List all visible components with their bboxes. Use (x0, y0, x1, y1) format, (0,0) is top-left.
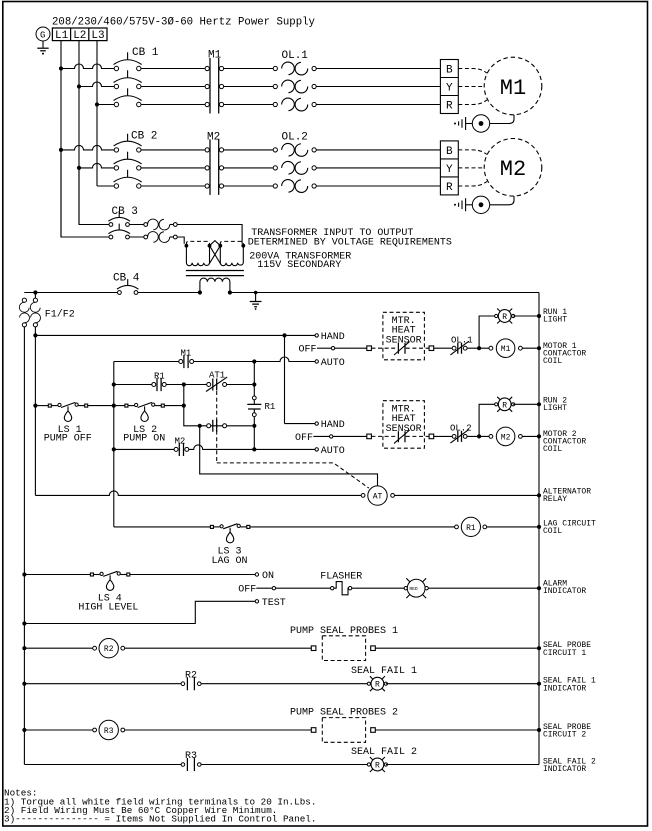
svg-text:M2: M2 (500, 157, 526, 182)
node secondary right (228, 290, 232, 294)
selector alarm ON (255, 573, 258, 576)
fuse transformer primary 1 (144, 219, 177, 230)
transformer core (186, 271, 244, 276)
coil R3 seal probe relay (93, 720, 125, 739)
wire M2 to OL.2 (224, 150, 274, 186)
wire LS1 to LS2 (88, 405, 125, 407)
wire OL.1 to M1 coil (467, 347, 489, 349)
wire OL.2 to terminals (316, 150, 440, 186)
seal probe M2 (454, 196, 514, 213)
svg-text:CB 3: CB 3 (112, 206, 138, 218)
wire OL.1 to terminals (316, 69, 440, 105)
motor M2 (484, 139, 542, 197)
coil R1 lag relay (455, 517, 539, 536)
wire hot branch to HAND 2 (284, 335, 286, 423)
svg-text:R: R (446, 182, 453, 194)
wire auto logic left vertical (113, 362, 115, 527)
wire phase C vertical (96, 41, 98, 186)
wire phase B vertical (78, 41, 80, 225)
svg-text:DETERMINED BY VOLTAGE REQUIREM: DETERMINED BY VOLTAGE REQUIREMENTS (248, 238, 452, 249)
ground symbol under G (37, 41, 48, 55)
box MTR. HEAT SENSOR 1 (383, 312, 425, 360)
motor M1 (484, 57, 542, 115)
svg-text:R2: R2 (104, 645, 114, 654)
svg-text:R1: R1 (466, 524, 476, 533)
wire dashed into sensor box (371, 347, 397, 349)
node HAND 1 feed (33, 333, 37, 337)
svg-text:SENSOR: SENSOR (386, 424, 422, 435)
contact OL.1 NC (450, 335, 472, 355)
wire fuse1 to transformer right primary terminal (177, 225, 242, 244)
svg-text:R1: R1 (154, 372, 165, 382)
svg-text:RED: RED (409, 586, 418, 592)
node secondary left (198, 290, 202, 294)
wire CB3 to primary fuses (129, 225, 143, 238)
wire dashed B to motor M2 (458, 150, 487, 155)
node LS net (182, 404, 186, 408)
node R1 row (112, 382, 116, 386)
wire dashed Y to motor M2 (458, 167, 484, 169)
wire square to OL.2 (434, 435, 453, 437)
svg-text:RELAY: RELAY (543, 495, 567, 504)
node M2 aux row (112, 447, 116, 451)
wire dashed AT1 actuator link (217, 391, 369, 488)
wire TEST feed (24, 601, 255, 623)
right rail (538, 293, 540, 765)
wire to CB2 pole 1 (hops B and C) (61, 145, 114, 150)
svg-text:B: B (446, 146, 453, 158)
wire LS1 feed (35, 405, 48, 407)
wire HAND2 from hot branch (285, 423, 316, 425)
contactor M2 power contacts (205, 132, 224, 195)
node phase B / CB2 (77, 166, 81, 170)
svg-text:INDICATOR: INDICATOR (543, 684, 586, 693)
wire left rail B (from F2) (34, 327, 36, 496)
node TEST feed (22, 621, 26, 625)
terminal square probes 1 (311, 646, 316, 651)
svg-text:LIGHT: LIGHT (543, 316, 567, 325)
coil M2 motor contactor (489, 427, 539, 446)
wire R3 to probe terminal (125, 729, 312, 731)
wire dashed sensor2 to square (406, 435, 429, 437)
terminal square probes 2 out (371, 728, 376, 733)
svg-text:G: G (40, 31, 45, 41)
node seal fail 1 feed (22, 682, 26, 686)
svg-text:115V SECONDARY: 115V SECONDARY (257, 260, 341, 271)
node phase C / CB1 (95, 102, 99, 106)
wire OFF1 to heat sensor (335, 347, 367, 349)
limit switch LS 1 pump off (48, 402, 87, 421)
wire M1 to OL.1 (224, 69, 274, 105)
wire CB2 to M2 contacts (141, 150, 205, 186)
svg-text:FLASHER: FLASHER (320, 572, 362, 583)
node phase A / CB1 (59, 66, 63, 70)
terminal square (367, 434, 372, 439)
svg-text:LIGHT: LIGHT (543, 404, 567, 413)
svg-text:OFF: OFF (295, 433, 313, 444)
node rail alarm (537, 586, 541, 590)
svg-text:AUTO: AUTO (321, 446, 345, 457)
node rail seal probe 2 (537, 728, 541, 732)
wire RED to rail (428, 587, 539, 589)
contact AT1 NC (206, 371, 227, 392)
pilot light RED alarm (404, 578, 428, 598)
svg-text:L3: L3 (91, 30, 104, 42)
node alarm feed (22, 572, 26, 576)
node rail coil1 (537, 346, 541, 350)
selector alarm TEST (255, 600, 258, 603)
wire probes2 to rail (375, 729, 539, 731)
fuse F2 (30, 290, 40, 327)
node hot branch down (282, 333, 286, 337)
svg-text:Y: Y (446, 164, 453, 176)
svg-text:CB 4: CB 4 (113, 273, 140, 285)
wire to CB2 pole 3 (97, 185, 114, 187)
svg-text:SENSOR: SENSOR (386, 335, 422, 346)
svg-text:INDICATOR: INDICATOR (543, 587, 586, 596)
wire probes1 to rail (375, 647, 539, 649)
wire flasher to RED light (352, 587, 404, 589)
svg-text:CIRCUIT 1: CIRCUIT 1 (543, 649, 586, 658)
node run light 1 branch (477, 346, 481, 350)
flasher (320, 572, 362, 595)
terminal square probes 1 out (371, 646, 376, 651)
wire R3 feed (24, 729, 92, 731)
wire seal fail 1 rung (24, 683, 367, 685)
svg-text:L1: L1 (55, 30, 69, 42)
wire OL.2 to M2 coil (467, 435, 489, 437)
contact thermal sensor 2 (394, 430, 410, 443)
svg-text:HAND: HAND (321, 420, 345, 431)
wire R2 feed (24, 647, 92, 649)
ground secondary (250, 291, 262, 310)
svg-text:SEAL FAIL 1: SEAL FAIL 1 (351, 666, 417, 677)
transformer T1 dual-voltage primary (185, 241, 246, 266)
node phase A / CB2 (59, 148, 63, 152)
selector HOA 2 terminals (295, 420, 345, 457)
contact R2 NO (181, 670, 201, 690)
coil R2 seal probe relay (93, 639, 125, 658)
terminal square (429, 346, 434, 351)
pilot light R seal fail 2 (351, 747, 417, 772)
wire rung AT relay (hops auto vertical) (35, 491, 361, 496)
svg-text:3)--------------- = Items Not: 3)--------------- = Items Not Supplied I… (4, 813, 316, 824)
svg-text:AT: AT (373, 493, 383, 502)
terminal block B/Y/R motor 1 (440, 60, 458, 114)
svg-text:AUTO: AUTO (321, 358, 345, 369)
terminal square (367, 346, 372, 351)
coil AT alternator relay (361, 486, 539, 505)
node rail seal fail 1 (537, 682, 541, 686)
wire seal fail 2 rung (24, 764, 367, 766)
terminal block L1 L2 L3 (52, 28, 107, 42)
seal probe M1 (454, 115, 514, 132)
wire dashed sensor to square (406, 347, 429, 349)
svg-text:PUMP SEAL PROBES 2: PUMP SEAL PROBES 2 (290, 708, 398, 719)
wire square to OL.1 (434, 347, 453, 349)
wire to CB1 pole 2 (hops C) (79, 82, 114, 86)
control rail top (24, 292, 539, 294)
svg-text:Y: Y (446, 83, 453, 95)
wire dashed into sensor box 2 (371, 435, 397, 437)
svg-text:ON: ON (262, 571, 274, 582)
wire to CB2 pole 2 (hops C) (79, 163, 114, 168)
wire phase B down to CB3 pole 1 (79, 168, 111, 225)
svg-text:L2: L2 (73, 30, 86, 42)
terminal square (429, 434, 434, 439)
wire light to rail (513, 315, 539, 317)
wire seal fail 2 to rail (386, 764, 539, 766)
wire seal fail 1 to rail (386, 683, 539, 685)
wire OFF to flasher (276, 587, 331, 589)
svg-text:CB 2: CB 2 (131, 130, 157, 142)
node cap branch on AUTO1 row (252, 359, 256, 363)
fuse transformer primary 2 (144, 232, 177, 243)
node cap branch on AT1 row (252, 382, 256, 386)
wire rung R1/AT1 (114, 384, 252, 386)
contact M1 aux NO (179, 349, 194, 369)
wire branch up to run light 2 (479, 404, 496, 436)
node LS1 feed (33, 404, 37, 408)
node phase B / CB1 (77, 84, 81, 88)
wire to CB1 pole 3 (97, 104, 114, 106)
selector HOA 1 terminals (299, 332, 345, 369)
node AT coil feed branch (198, 424, 202, 428)
svg-text:HAND: HAND (321, 332, 345, 343)
svg-text:OFF: OFF (238, 585, 256, 596)
ground terminal G (36, 27, 50, 41)
wire LS4 to ON terminal (130, 574, 255, 576)
svg-text:COIL: COIL (543, 357, 562, 366)
overload OL.1 (3 heaters) (273, 50, 316, 111)
node run light 2 branch (477, 434, 481, 438)
terminal square probes 2 (311, 728, 316, 733)
svg-text:CIRCUIT 2: CIRCUIT 2 (543, 731, 586, 740)
svg-text:R: R (375, 762, 380, 771)
limit switch LS 3 lag on (210, 524, 249, 543)
coil M1 motor contactor (489, 339, 539, 358)
contact AT1 NO (207, 420, 227, 432)
overload OL.2 (3 heaters) (273, 131, 316, 192)
node cap bottom on AT1 NO row (252, 424, 256, 428)
node rail LAG (537, 525, 541, 529)
box MTR. HEAT SENSOR 2 (383, 401, 425, 449)
contact OL.2 NC (450, 424, 472, 444)
limit switch LS 2 pump on (125, 402, 164, 421)
svg-text:M1: M1 (181, 349, 192, 359)
node LS row (112, 404, 116, 408)
svg-text:PUMP OFF: PUMP OFF (44, 434, 92, 445)
wire OFF2 to heat sensor 2 (333, 435, 367, 437)
node AT1 row to R1 contact branch (182, 382, 186, 386)
svg-text:OL.2: OL.2 (282, 131, 308, 143)
wire branch up to run light 1 (479, 316, 496, 348)
svg-text:OL.1: OL.1 (282, 50, 309, 62)
node R2 feed (22, 646, 26, 650)
limit switch LS 4 high level (90, 571, 129, 590)
wire dashed Y to motor M1 (458, 86, 484, 88)
wire R2 to probe terminal (125, 647, 312, 649)
node cap bottom on M2 row (252, 447, 256, 451)
svg-text:R: R (502, 313, 507, 322)
svg-text:M1: M1 (500, 76, 526, 101)
node rail run2 (537, 402, 541, 406)
svg-text:COIL: COIL (543, 527, 562, 536)
svg-text:M1: M1 (501, 345, 511, 354)
svg-text:OL.2: OL.2 (450, 424, 472, 434)
transformer 115V secondary (200, 278, 230, 292)
wire rung AUTO 1 (hops hot branch) (114, 357, 315, 362)
wire dashed B to motor M1 (458, 69, 487, 74)
wire light2 to rail (513, 403, 539, 405)
wire CB1 to M1 contacts (141, 69, 205, 105)
wire fuse2 to transformer left primary terminal (177, 237, 184, 244)
svg-text:R: R (502, 401, 507, 410)
terminal block B/Y/R motor 2 (440, 141, 458, 195)
svg-text:COIL: COIL (543, 445, 562, 454)
wire left rail A (from F1) (23, 327, 25, 765)
fuse F1 (19, 298, 29, 327)
wire rung M2 aux AUTO 2 (hops AT feed) (114, 445, 315, 449)
svg-text:R: R (446, 101, 453, 113)
wire dashed R to motor M1 (458, 100, 487, 105)
svg-text:PUMP SEAL PROBES 1: PUMP SEAL PROBES 1 (290, 626, 398, 637)
svg-text:208/230/460/575V-3Ø-60 Hertz P: 208/230/460/575V-3Ø-60 Hertz Power Suppl… (52, 17, 316, 29)
svg-text:HIGH LEVEL: HIGH LEVEL (78, 603, 138, 614)
wire LS2 to auto net (164, 405, 183, 407)
svg-text:R3: R3 (104, 727, 114, 736)
contact thermal sensor 1 (394, 342, 410, 355)
contact R1 NO (152, 372, 166, 392)
pilot light R run 1 (495, 309, 515, 324)
wire rung HAND 1 (35, 334, 315, 336)
pilot light R run 2 (495, 397, 515, 412)
svg-text:F1/F2: F1/F2 (45, 308, 75, 320)
wire to CB1 pole 1 (hops B and C) (61, 64, 114, 69)
contact M2 aux NO (174, 437, 189, 456)
pilot light R seal fail 1 (351, 666, 417, 691)
svg-text:PUMP ON: PUMP ON (123, 434, 165, 445)
wire phase A down to CB3 pole 2 (61, 150, 111, 237)
svg-text:M2: M2 (501, 433, 511, 442)
svg-text:INDICATOR: INDICATOR (543, 765, 586, 774)
svg-text:LAG ON: LAG ON (212, 556, 248, 567)
contact R3 NO (181, 751, 201, 771)
svg-text:R: R (375, 681, 380, 690)
svg-text:CB 1: CB 1 (132, 47, 159, 59)
node rail coil2 (537, 434, 541, 438)
node rail AT (537, 493, 541, 497)
wire dashed R to motor M2 (458, 181, 487, 186)
svg-text:SEAL FAIL 2: SEAL FAIL 2 (351, 747, 417, 758)
wire phase A vertical (60, 41, 62, 237)
node R3 feed (22, 728, 26, 732)
svg-text:OFF: OFF (299, 345, 317, 356)
svg-text:R1: R1 (265, 402, 276, 412)
relay element R1 (plug-in) (247, 362, 275, 450)
wire rung LAG (114, 526, 455, 528)
wire rung alarm LS4 (24, 574, 90, 576)
svg-text:TEST: TEST (262, 598, 286, 609)
svg-text:B: B (446, 65, 453, 77)
node rail run1 (537, 314, 541, 318)
contactor M1 power contacts (205, 50, 224, 114)
node rail seal probe 1 (537, 646, 541, 650)
wire vertical R1-row to AT1 NO row (184, 385, 252, 426)
wire AT coil feed (200, 426, 378, 486)
